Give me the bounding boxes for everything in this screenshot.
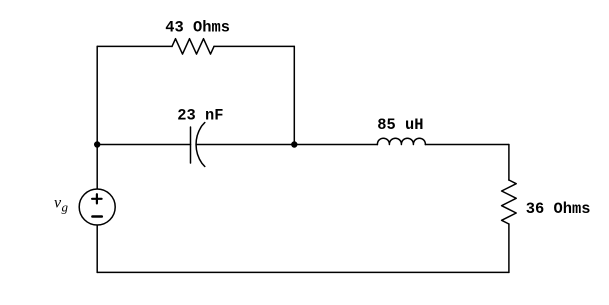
node left junction dot xyxy=(94,141,100,147)
svg-text:g: g xyxy=(62,200,69,215)
svg-text:85 uH: 85 uH xyxy=(377,116,423,134)
wire middle to right corner xyxy=(425,144,509,146)
svg-text:43 Ohms: 43 Ohms xyxy=(165,19,230,37)
inductor 85 uH coil xyxy=(377,138,425,144)
wire middle left segment xyxy=(97,144,190,146)
svg-text:23 nF: 23 nF xyxy=(177,106,223,124)
wire top right segment xyxy=(214,45,294,47)
wire right vertical lower xyxy=(508,224,510,272)
wire right vertical upper xyxy=(508,145,510,181)
voltage source minus sign xyxy=(92,215,101,218)
voltage source plus sign xyxy=(92,194,102,203)
wire middle right segment (cap to inductor) xyxy=(196,144,377,146)
node middle junction dot xyxy=(291,141,297,147)
resistor 36 Ohms zigzag xyxy=(502,180,517,224)
wire right vertical of top loop xyxy=(293,46,295,144)
capacitor 23 nF curved plate xyxy=(196,123,205,167)
svg-text:36 Ohms: 36 Ohms xyxy=(526,200,591,218)
wire bottom xyxy=(97,271,509,273)
wire left vertical lower (source bottom to bottom corner) xyxy=(96,225,98,272)
voltage source vg circle xyxy=(79,189,115,225)
resistor 43 Ohms zigzag xyxy=(172,39,214,54)
wire top left segment xyxy=(97,45,172,47)
capacitor 23 nF left plate xyxy=(190,127,192,163)
wire left vertical (top corner to source top) xyxy=(96,46,98,189)
